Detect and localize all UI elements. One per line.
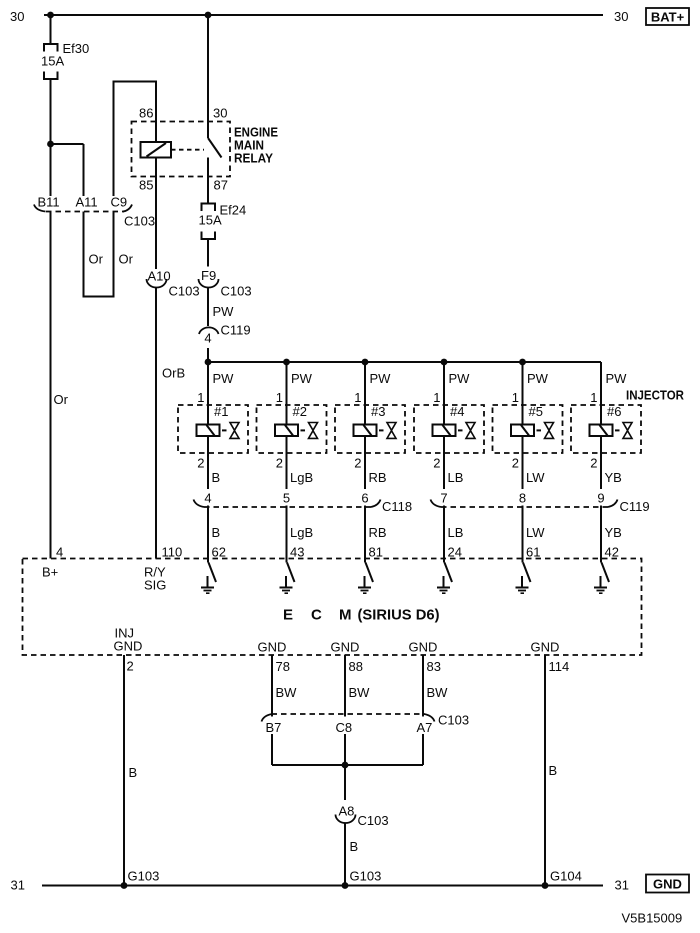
svg-text:#6: #6 xyxy=(607,404,621,419)
svg-text:C103: C103 xyxy=(169,284,200,299)
svg-text:A10: A10 xyxy=(148,269,171,284)
svg-text:B: B xyxy=(350,839,359,854)
svg-text:1: 1 xyxy=(512,390,519,405)
svg-text:B11: B11 xyxy=(38,195,60,210)
svg-text:OrB: OrB xyxy=(162,366,185,381)
svg-text:C9: C9 xyxy=(111,195,128,210)
svg-text:110: 110 xyxy=(162,545,183,560)
svg-text:1: 1 xyxy=(590,390,597,405)
svg-text:Ef30: Ef30 xyxy=(63,41,90,56)
svg-text:62: 62 xyxy=(212,545,226,560)
svg-text:#2: #2 xyxy=(293,404,307,419)
svg-text:42: 42 xyxy=(605,545,619,560)
svg-text:ENGINE: ENGINE xyxy=(234,126,278,140)
svg-text:GND: GND xyxy=(409,640,438,655)
svg-text:30: 30 xyxy=(10,9,24,24)
svg-text:G104: G104 xyxy=(550,869,582,884)
svg-text:C119: C119 xyxy=(221,323,251,338)
svg-text:61: 61 xyxy=(526,545,540,560)
svg-text:4: 4 xyxy=(204,331,211,346)
svg-text:YB: YB xyxy=(605,470,622,485)
svg-text:B: B xyxy=(549,763,558,778)
svg-text:A7: A7 xyxy=(417,720,433,735)
svg-text:BAT+: BAT+ xyxy=(651,10,685,25)
svg-text:PW: PW xyxy=(449,371,471,386)
svg-text:9: 9 xyxy=(597,491,604,506)
svg-text:C118: C118 xyxy=(382,499,412,514)
svg-text:15A: 15A xyxy=(199,213,222,228)
svg-text:31: 31 xyxy=(615,878,629,893)
svg-text:PW: PW xyxy=(291,371,313,386)
svg-text:15A: 15A xyxy=(41,54,64,69)
svg-text:81: 81 xyxy=(369,545,383,560)
svg-text:YB: YB xyxy=(605,525,622,540)
svg-text:#4: #4 xyxy=(450,404,464,419)
svg-text:1: 1 xyxy=(197,390,204,405)
svg-text:PW: PW xyxy=(213,304,235,319)
svg-text:G103: G103 xyxy=(128,869,160,884)
svg-text:PW: PW xyxy=(370,371,392,386)
svg-text:1: 1 xyxy=(433,390,440,405)
svg-text:85: 85 xyxy=(139,178,153,193)
svg-text:43: 43 xyxy=(290,545,304,560)
svg-text:2: 2 xyxy=(512,456,519,471)
svg-text:114: 114 xyxy=(549,659,570,674)
svg-text:C103: C103 xyxy=(438,713,469,728)
svg-text:B7: B7 xyxy=(266,720,282,735)
svg-text:RB: RB xyxy=(369,525,387,540)
svg-text:2: 2 xyxy=(433,456,440,471)
svg-text:LgB: LgB xyxy=(290,525,313,540)
svg-text:MAIN: MAIN xyxy=(234,139,264,153)
svg-text:2: 2 xyxy=(276,456,283,471)
svg-text:7: 7 xyxy=(440,491,447,506)
svg-text:88: 88 xyxy=(349,659,363,674)
svg-text:E: E xyxy=(283,607,293,624)
svg-text:M: M xyxy=(339,607,352,624)
svg-text:24: 24 xyxy=(448,545,462,560)
svg-text:RB: RB xyxy=(369,470,387,485)
svg-text:6: 6 xyxy=(361,491,368,506)
svg-text:BW: BW xyxy=(276,685,298,700)
svg-text:GND: GND xyxy=(258,640,287,655)
svg-text:2: 2 xyxy=(197,456,204,471)
svg-text:B: B xyxy=(212,470,221,485)
svg-text:86: 86 xyxy=(139,106,153,121)
svg-text:C103: C103 xyxy=(124,214,155,229)
svg-text:V5B15009: V5B15009 xyxy=(622,911,683,926)
svg-text:C103: C103 xyxy=(358,813,389,828)
svg-text:GND: GND xyxy=(114,639,143,654)
svg-text:G103: G103 xyxy=(350,869,382,884)
svg-text:LB: LB xyxy=(448,470,464,485)
svg-text:Or: Or xyxy=(119,252,134,267)
svg-text:Ef24: Ef24 xyxy=(220,203,247,218)
svg-text:C8: C8 xyxy=(336,720,353,735)
svg-text:(SIRIUS D6): (SIRIUS D6) xyxy=(358,607,440,624)
svg-text:PW: PW xyxy=(213,371,235,386)
svg-text:#1: #1 xyxy=(214,404,228,419)
svg-text:GND: GND xyxy=(531,640,560,655)
svg-text:Or: Or xyxy=(54,392,69,407)
svg-text:BW: BW xyxy=(349,685,371,700)
svg-text:RELAY: RELAY xyxy=(234,152,274,166)
svg-text:LW: LW xyxy=(526,470,545,485)
svg-text:LB: LB xyxy=(448,525,464,540)
svg-text:87: 87 xyxy=(214,178,228,193)
svg-text:2: 2 xyxy=(590,456,597,471)
svg-text:A11: A11 xyxy=(76,195,98,210)
svg-text:83: 83 xyxy=(427,659,441,674)
svg-text:B: B xyxy=(212,525,221,540)
svg-text:2: 2 xyxy=(127,659,134,674)
svg-text:INJECTOR: INJECTOR xyxy=(626,389,684,403)
svg-text:30: 30 xyxy=(614,9,628,24)
svg-text:5: 5 xyxy=(283,491,290,506)
svg-text:SIG: SIG xyxy=(144,578,166,593)
svg-text:1: 1 xyxy=(354,390,361,405)
svg-text:C119: C119 xyxy=(620,499,650,514)
svg-text:A8: A8 xyxy=(339,804,355,819)
svg-text:F9: F9 xyxy=(201,268,216,283)
svg-text:2: 2 xyxy=(354,456,361,471)
svg-text:C: C xyxy=(311,607,322,624)
svg-text:C103: C103 xyxy=(221,284,252,299)
svg-text:30: 30 xyxy=(213,106,227,121)
svg-text:#3: #3 xyxy=(371,404,385,419)
svg-text:1: 1 xyxy=(276,390,283,405)
svg-text:4: 4 xyxy=(204,491,211,506)
svg-text:8: 8 xyxy=(519,491,526,506)
svg-text:LW: LW xyxy=(526,525,545,540)
svg-text:4: 4 xyxy=(56,545,63,560)
svg-text:PW: PW xyxy=(527,371,549,386)
svg-text:#5: #5 xyxy=(529,404,543,419)
svg-text:GND: GND xyxy=(331,640,360,655)
svg-text:B: B xyxy=(129,765,138,780)
svg-text:31: 31 xyxy=(11,878,25,893)
svg-text:GND: GND xyxy=(653,877,682,892)
svg-text:B+: B+ xyxy=(42,565,58,580)
svg-text:BW: BW xyxy=(427,685,449,700)
svg-text:78: 78 xyxy=(276,659,290,674)
svg-text:Or: Or xyxy=(89,252,104,267)
svg-text:LgB: LgB xyxy=(290,470,313,485)
svg-text:PW: PW xyxy=(606,371,628,386)
